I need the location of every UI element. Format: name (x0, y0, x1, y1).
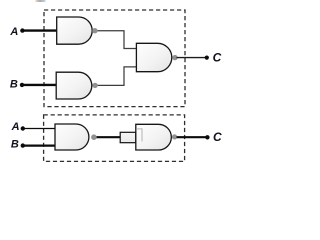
connector tab (120, 132, 136, 142)
AND gate 2 (56, 72, 92, 99)
wire gate4 output to connector tab (95, 136, 122, 138)
AND gate 5 (136, 124, 172, 150)
wire gate1 output to gate3 top input (95, 31, 137, 49)
gate2 output node (gray) (92, 83, 97, 88)
gate5 output node (gray) (172, 134, 177, 139)
node C (top output) (205, 56, 209, 60)
wire gate3 to C (177, 57, 207, 59)
wire B to gate 2 (22, 84, 57, 86)
gate3 output node (gray) (172, 55, 177, 60)
AND gate 1 (57, 17, 92, 44)
svg-text:B: B (11, 139, 19, 151)
svg-text:A: A (9, 26, 18, 38)
wire gate2 output to gate3 bottom input (95, 67, 137, 86)
node C (bottom output) (205, 135, 209, 139)
dashed box (bottom circuit) (44, 115, 185, 161)
svg-text:B: B (10, 78, 18, 90)
AND gate 3 (136, 43, 171, 71)
gate1 output node (gray) (92, 28, 97, 33)
svg-text:A: A (11, 121, 20, 133)
svg-text:C: C (213, 130, 222, 144)
cropped smudge top edge (36, 0, 46, 2)
svg-text:C: C (213, 51, 222, 65)
AND gate 4 (55, 124, 89, 150)
wire A to gate 1 (22, 29, 57, 31)
wire A to gate 4 (23, 128, 56, 130)
wire gate5 to C (177, 136, 207, 138)
connector socket notch inside gate 5 (136, 129, 142, 142)
dashed box (top circuit) (44, 10, 185, 107)
gate4 output node (gray) (91, 134, 97, 140)
wire B to gate 4 (23, 145, 56, 147)
